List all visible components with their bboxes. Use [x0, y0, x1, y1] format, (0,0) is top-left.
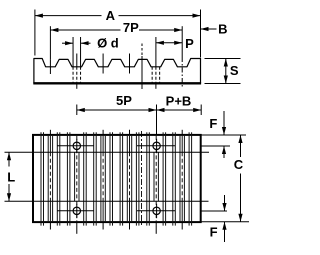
break line (plan view, dash-dot) [141, 131, 143, 226]
dimension 7P arrowheads [50, 28, 58, 32]
hole H4 plan circle [153, 207, 160, 214]
plan plate outline (thick border) [33, 135, 201, 222]
dimension 7P line [50, 29, 120, 31]
dimension d extension line left [72, 37, 74, 67]
dimension 7P extension line left (groove v1 center line) [49, 26, 51, 59]
dimension 5P line [77, 109, 157, 111]
dimension B arrowhead [201, 27, 209, 31]
svg-text:5P: 5P [116, 93, 132, 108]
dimension P arrowheads [156, 41, 164, 45]
groove center tick v3 [102, 54, 104, 74]
dimension d extension line right [80, 37, 82, 67]
dimension 5P extension line left (hole H1 center) [76, 105, 78, 116]
hole H1 plan circle [73, 142, 80, 149]
svg-text:B: B [218, 22, 227, 37]
dimension L arrowheads [7, 152, 11, 160]
groove center tick v4 [129, 54, 131, 74]
svg-text:P: P [185, 36, 194, 51]
dimension S line [225, 59, 227, 84]
hole row 1 extension line [201, 145, 230, 147]
svg-text:C: C [234, 157, 244, 172]
hole H1 crosshair [57, 145, 94, 147]
hole H2 hidden edges (profile) [151, 67, 153, 83]
dimension A arrowheads [35, 14, 43, 18]
dimension L line [8, 152, 10, 166]
plan bottom edge extension line [201, 221, 249, 223]
dimension A extension line left [34, 10, 36, 56]
dimension P+B extension line right [200, 105, 202, 116]
dimension F top upper arrow [223, 111, 225, 135]
hole row 2 extension line [201, 210, 227, 212]
break line (profile view) [141, 44, 143, 57]
groove center tick v1 [49, 59, 51, 74]
svg-text:F: F [209, 116, 217, 131]
svg-text:7P: 7P [123, 20, 139, 35]
dimension A line [35, 15, 102, 17]
svg-text:Ø d: Ø d [97, 36, 119, 51]
dimension C line [240, 135, 242, 157]
hole H1 hidden edges (profile) [72, 67, 74, 83]
hole H4 crosshair [137, 210, 175, 212]
dimension S arrowheads [224, 59, 228, 67]
belt edge line bottom (L lower extension) [5, 200, 209, 202]
groove v6 center line (dash-dot, shared ext for 7P/P/B) [181, 26, 183, 57]
dimension S extension line top [205, 58, 241, 60]
hole H3 crosshair [57, 210, 94, 212]
plate toothed outline (profile view) [34, 59, 201, 84]
svg-text:A: A [106, 8, 116, 23]
dimension d right outside arrow / leader [81, 42, 91, 44]
belt edge line top (L upper extension) [5, 151, 210, 153]
hole H2 center line lower part (profile) [155, 67, 157, 83]
dimension P+B arrowheads [157, 108, 165, 112]
dimension d left outside arrow [62, 42, 73, 44]
svg-text:S: S [230, 63, 239, 78]
dimension B arrow line [201, 28, 217, 30]
hole H2 plan circle [153, 142, 160, 149]
dimension B extension line (right plate end, shared with A) [200, 10, 202, 58]
svg-text:L: L [7, 170, 15, 185]
plan groove stripe lines [41, 130, 192, 234]
dimension F top lower arrow [223, 146, 225, 158]
hole H2 crosshair [137, 145, 175, 147]
plate bottom edge (profile view, thick) [33, 82, 201, 84]
hole H3 plan circle [73, 207, 80, 214]
svg-text:F: F [210, 225, 218, 240]
hole H1 center line (profile) [76, 54, 78, 67]
dimension P+B line [157, 109, 202, 111]
dimension C arrowheads [238, 135, 242, 143]
dimension F bottom lower arrow [224, 222, 226, 242]
plan top edge extension line [201, 134, 246, 136]
dimension P line [156, 42, 182, 44]
dimension 5P extension line right (hole H2 center, reaches plan top edge) [156, 105, 158, 135]
dimension P extension line left (hole H2 center upper) [155, 37, 157, 67]
dimension F bottom upper arrow [224, 195, 226, 211]
dimension S extension line bottom [205, 83, 241, 85]
dimension 5P arrowheads [77, 108, 85, 112]
svg-text:P+B: P+B [166, 93, 192, 108]
